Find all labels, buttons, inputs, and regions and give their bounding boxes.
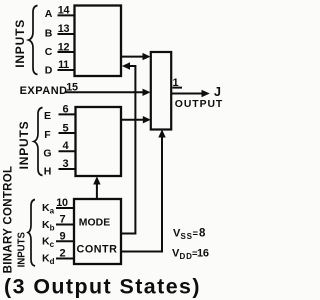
wire input C pin 12 (58, 51, 75, 53)
svg-text:INPUTS: INPUTS (16, 232, 27, 268)
svg-text:G: G (43, 148, 51, 160)
brace inputs E-H (34, 108, 43, 176)
wire mode control to G2 bottom (96, 184, 98, 200)
arrowhead J output (202, 90, 210, 97)
wire Kd pin 2 (56, 258, 74, 260)
svg-text:11: 11 (58, 59, 69, 71)
wire Ka pin 10 (56, 207, 74, 209)
svg-text:2: 2 (59, 247, 65, 259)
output block U3 (151, 52, 171, 130)
svg-text:H: H (44, 165, 52, 177)
brace binary control inputs Ka-Kd (28, 200, 35, 267)
svg-text:B: B (45, 27, 53, 39)
svg-text:13: 13 (58, 23, 70, 35)
svg-text:BINARY CONTROL: BINARY CONTROL (3, 166, 15, 274)
svg-text:CONTR: CONTR (77, 243, 118, 255)
arrowhead G2 to output block (143, 116, 151, 123)
svg-text:1: 1 (172, 77, 178, 89)
svg-text:OUTPUT: OUTPUT (175, 99, 223, 110)
pin 1 underline (173, 87, 183, 89)
svg-text:EXPAND: EXPAND (20, 85, 68, 97)
svg-text:C: C (45, 46, 53, 58)
arrowhead mode to output block (158, 129, 165, 137)
svg-text:7: 7 (59, 214, 65, 226)
svg-text:F: F (44, 129, 51, 141)
wire Kc pin 9 (56, 240, 74, 242)
svg-text:INPUTS: INPUTS (13, 19, 27, 68)
wire G2 output to output block (121, 119, 145, 121)
wire input E pin 6 (59, 113, 76, 115)
wire J output (171, 93, 203, 95)
wire input H pin 3 (59, 168, 76, 170)
wire mode control to output block bottom (121, 136, 162, 252)
svg-text:INPUTS: INPUTS (17, 121, 31, 170)
wire input A pin 14 (58, 14, 75, 16)
svg-text:J: J (214, 85, 221, 99)
svg-text:12: 12 (58, 41, 70, 53)
svg-text:10: 10 (56, 197, 68, 209)
arrowhead mode to G2 (93, 176, 100, 184)
svg-text:6: 6 (62, 104, 68, 116)
svg-text:3: 3 (62, 158, 68, 170)
wire input B pin 13 (58, 33, 75, 35)
wire input G pin 4 (59, 150, 76, 152)
mode control block MODE CONTR (74, 199, 121, 264)
wire input F pin 5 (59, 132, 76, 134)
svg-text:(3 Output States): (3 Output States) (4, 275, 201, 299)
wire input D pin 11 (58, 69, 75, 71)
svg-text:9: 9 (59, 230, 65, 242)
wire G1 output to output block (121, 56, 144, 58)
gate block G2 (inputs E-H) (76, 107, 122, 176)
wire mode control to G1 (right side) (121, 66, 135, 234)
svg-text:MODE: MODE (79, 217, 111, 228)
svg-text:5: 5 (62, 122, 68, 134)
svg-text:14: 14 (58, 5, 70, 17)
svg-text:E: E (44, 110, 51, 122)
arrowhead EXPAND to output block (143, 89, 151, 96)
svg-text:D: D (45, 64, 53, 76)
arrowhead mode to G1 (122, 62, 130, 69)
arrowhead G1 to output block (143, 53, 151, 60)
gate block G1 (inputs A-D) (75, 6, 122, 77)
svg-text:4: 4 (62, 140, 69, 152)
svg-text:A: A (45, 8, 53, 20)
brace inputs A-D (29, 6, 38, 75)
svg-text:15: 15 (66, 81, 78, 93)
wire EXPAND pin 15 to output block (65, 91, 145, 93)
wire Kb pin 7 (56, 224, 74, 226)
